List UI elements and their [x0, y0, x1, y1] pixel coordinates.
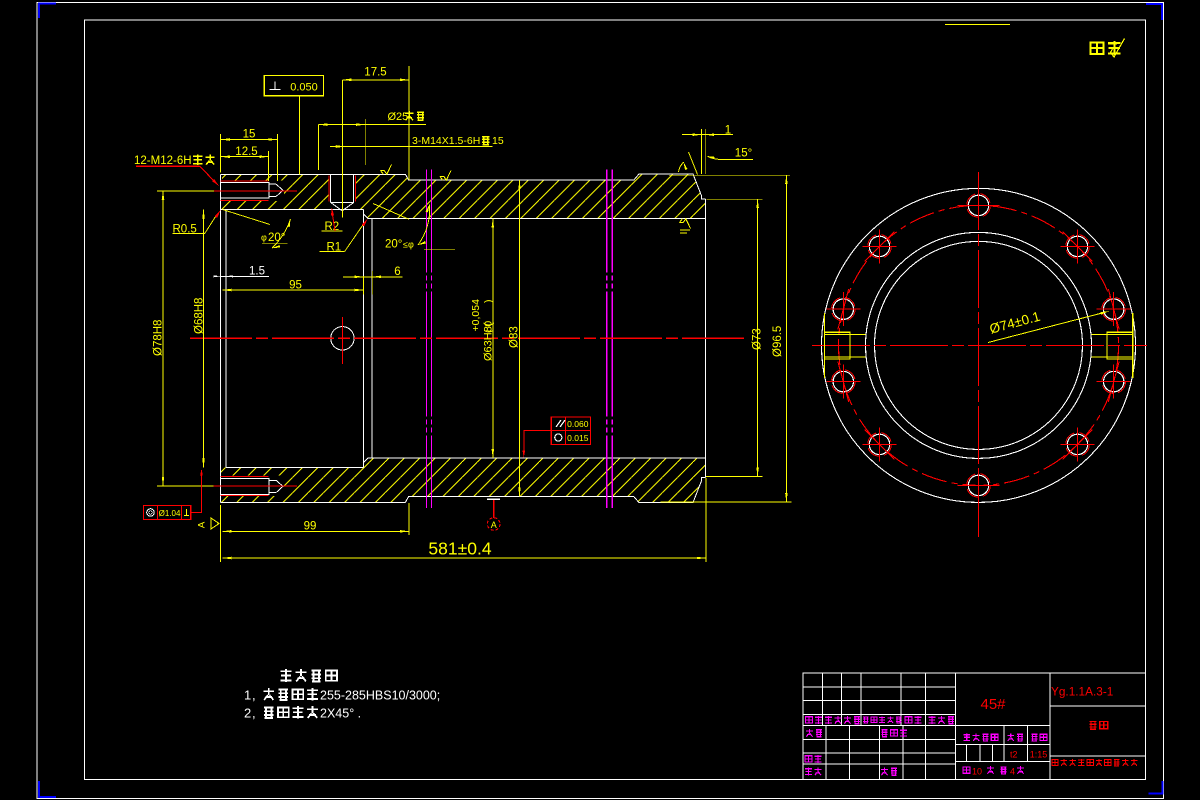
blue corner mark bottom-right: [1149, 781, 1163, 794]
flange center hole circle: [331, 327, 354, 350]
hole knockout M12 bottom: [220, 476, 284, 496]
svg-text:1: 1: [244, 688, 251, 703]
svg-text:15: 15: [492, 135, 504, 147]
frame concentricity left: [144, 506, 191, 520]
frame left leader: [191, 471, 202, 513]
dim 12.5: [221, 156, 269, 158]
break line pair 2: [606, 170, 608, 509]
dim 1 chamfer: [682, 134, 733, 136]
bolt hole at 90deg: [968, 195, 988, 215]
bolt hole at 225deg: [869, 434, 889, 454]
svg-text:): ): [483, 300, 495, 304]
tolerance frame perpendicular 0.050: [264, 76, 323, 96]
svg-text:t2: t2: [1010, 750, 1018, 760]
dim 95: [223, 289, 364, 291]
surface note overline: [945, 24, 1010, 26]
dim dia63H8 tolerance: [492, 219, 494, 458]
surface mark on bore68: [680, 219, 691, 229]
bore68 top line: [368, 218, 705, 220]
flange center hole vertical centerline: [341, 317, 343, 364]
svg-text:,: ,: [252, 688, 256, 703]
title texts gongyi: [805, 767, 812, 775]
surface note qiyu: [1091, 42, 1104, 54]
svg-text:6: 6: [394, 266, 400, 278]
main view top outline: [220, 174, 705, 199]
keyway right: [1107, 332, 1132, 359]
svg-text:Ø78H8: Ø78H8: [153, 320, 165, 356]
title texts jieduanbiaoji: [963, 733, 970, 741]
main view right end face: [704, 199, 706, 477]
svg-text:0.050: 0.050: [290, 82, 318, 94]
svg-text:2: 2: [244, 706, 251, 721]
hole knockout M14: [328, 175, 356, 212]
bolt hole at -90deg: [968, 475, 988, 495]
svg-text:≤φ: ≤φ: [403, 240, 414, 250]
svg-text:95: 95: [289, 279, 302, 291]
svg-text:1:15: 1:15: [1030, 750, 1048, 760]
bore68 bottom line: [368, 457, 705, 459]
thread hole M14 outline: [330, 174, 332, 202]
bore78 top line: [220, 208, 363, 210]
dim dia74 bolt circle: [988, 312, 1106, 343]
main view left inner face line: [225, 209, 227, 467]
svg-text:,: ,: [252, 706, 256, 721]
bolt hole at -45deg: [1067, 434, 1087, 454]
bolt hole at 15deg: [1104, 299, 1124, 319]
svg-text:45#: 45#: [980, 696, 1006, 713]
main view bottom outline: [220, 477, 705, 502]
svg-text:12-M12-6H: 12-M12-6H: [134, 155, 192, 167]
svg-text:Yg.1.1A.3-1: Yg.1.1A.3-1: [1051, 685, 1113, 699]
svg-text:A: A: [197, 521, 208, 528]
svg-text:A: A: [491, 520, 497, 530]
dim 17.5: [342, 79, 409, 81]
svg-text:20°: 20°: [268, 232, 285, 244]
svg-text:20°: 20°: [385, 239, 402, 251]
bolt hole at 135deg: [869, 236, 889, 256]
title texts row biaoji: [805, 717, 812, 723]
svg-text:4: 4: [1010, 767, 1015, 777]
hatch bottom band: [220, 458, 705, 503]
blue corner mark top-left: [39, 4, 56, 19]
svg-text:3-M14X1.5-6H: 3-M14X1.5-6H: [412, 135, 480, 147]
svg-text:( 0: ( 0: [483, 321, 495, 333]
title right zone lines: [1050, 705, 1146, 707]
svg-text:1.5: 1.5: [249, 265, 265, 277]
svg-text:1: 1: [725, 125, 731, 137]
hatch top band: [220, 174, 705, 219]
thread M12 top centerline: [214, 190, 298, 192]
svg-text:17.5: 17.5: [364, 67, 386, 79]
svg-text:φ: φ: [261, 232, 267, 242]
right view horizontal centerline: [812, 344, 1147, 346]
dim dia96.5: [669, 174, 790, 176]
svg-text:Ø1.04: Ø1.04: [159, 509, 181, 518]
surface mark on top A: [381, 165, 392, 175]
blue corner mark bottom-left: [39, 781, 56, 797]
svg-text:+0,054: +0,054: [470, 299, 482, 332]
right view inner circle: [875, 241, 1083, 449]
bolt hole at 195deg: [833, 371, 853, 391]
tolerance frame parallel-circular: [551, 417, 590, 445]
thread hole M12 bottom outline: [220, 478, 269, 494]
bore step chamfer line: [371, 219, 373, 458]
keyway left: [825, 332, 850, 359]
main view horizontal centerline: [190, 337, 746, 339]
title block grid: [803, 686, 956, 688]
title block outline: [803, 673, 1146, 780]
title text part name gangti: [1090, 722, 1097, 730]
svg-text:15: 15: [243, 129, 256, 141]
right view bolt circle: [839, 205, 1119, 485]
svg-text:Ø83: Ø83: [509, 326, 521, 348]
dim dia73: [707, 198, 763, 200]
note dia25 spotface: [318, 124, 426, 126]
right view outer circle: [822, 188, 1136, 502]
dim 99: [223, 530, 410, 532]
dim dia68H8: [203, 209, 205, 467]
datum A flag: [487, 498, 500, 500]
svg-text:255-285HBS10/3000;: 255-285HBS10/3000;: [320, 689, 440, 703]
tolerance frame leader: [524, 430, 552, 455]
dim 1.5 white: [220, 275, 269, 277]
thread hole M12 top outline: [220, 182, 269, 198]
bore step face line: [363, 209, 365, 467]
step chamfer diag top: [364, 214, 369, 219]
thread M14 centerline: [341, 80, 343, 218]
tech notes title: [280, 669, 291, 682]
right view vertical centerline: [978, 172, 980, 537]
dim 581: [223, 557, 706, 559]
thread M12 bottom centerline ext yellow: [157, 485, 214, 487]
title texts shenhe: [805, 756, 812, 762]
datum triangle: [211, 518, 219, 529]
svg-text:10: 10: [972, 767, 982, 777]
title text sheets: [963, 767, 970, 773]
dim 20deg chamfer left: [223, 210, 271, 225]
bolt hole at 165deg: [833, 299, 853, 319]
svg-text:99: 99: [304, 521, 317, 533]
step chamfer diag bottom: [364, 458, 369, 463]
svg-text:581±0.4: 581±0.4: [428, 539, 491, 559]
bolt hole at 45deg: [1067, 236, 1087, 256]
blue corner mark top-right: [1146, 4, 1162, 20]
svg-text:Ø73: Ø73: [752, 328, 764, 350]
title texts sheji: [806, 729, 813, 737]
svg-text:Ø68H8: Ø68H8: [194, 298, 206, 334]
svg-text:0.060: 0.060: [567, 419, 589, 429]
note 3-M14X1.5-6H depth15: [330, 146, 493, 148]
bore78 bottom line: [226, 467, 364, 469]
dim 15: [221, 139, 278, 141]
bolt hole at -15deg: [1104, 371, 1124, 391]
right view middle circle: [866, 232, 1092, 458]
dim dia83: [519, 180, 521, 496]
svg-text:0.015: 0.015: [567, 433, 589, 443]
hole knockout M12 top: [220, 180, 284, 200]
thread M12 bottom crest lines: [220, 475, 268, 477]
main view left face: [219, 174, 221, 502]
svg-text:Ø96.5: Ø96.5: [772, 326, 784, 357]
thread M12 top crest lines: [220, 180, 268, 182]
dim 20deg chamfer right step: [373, 204, 409, 220]
dim dia78H8: [162, 191, 164, 486]
svg-text:12.5: 12.5: [235, 146, 257, 158]
surface mark on top B: [440, 170, 451, 180]
svg-text:15°: 15°: [735, 148, 752, 160]
break line pair 1: [426, 170, 428, 509]
dim 6: [343, 276, 403, 278]
title text school: [1052, 760, 1058, 766]
thread M12 bottom centerline: [214, 485, 298, 487]
svg-text:2X45° .: 2X45° .: [320, 707, 361, 721]
thread M14 crest lines: [328, 176, 330, 202]
